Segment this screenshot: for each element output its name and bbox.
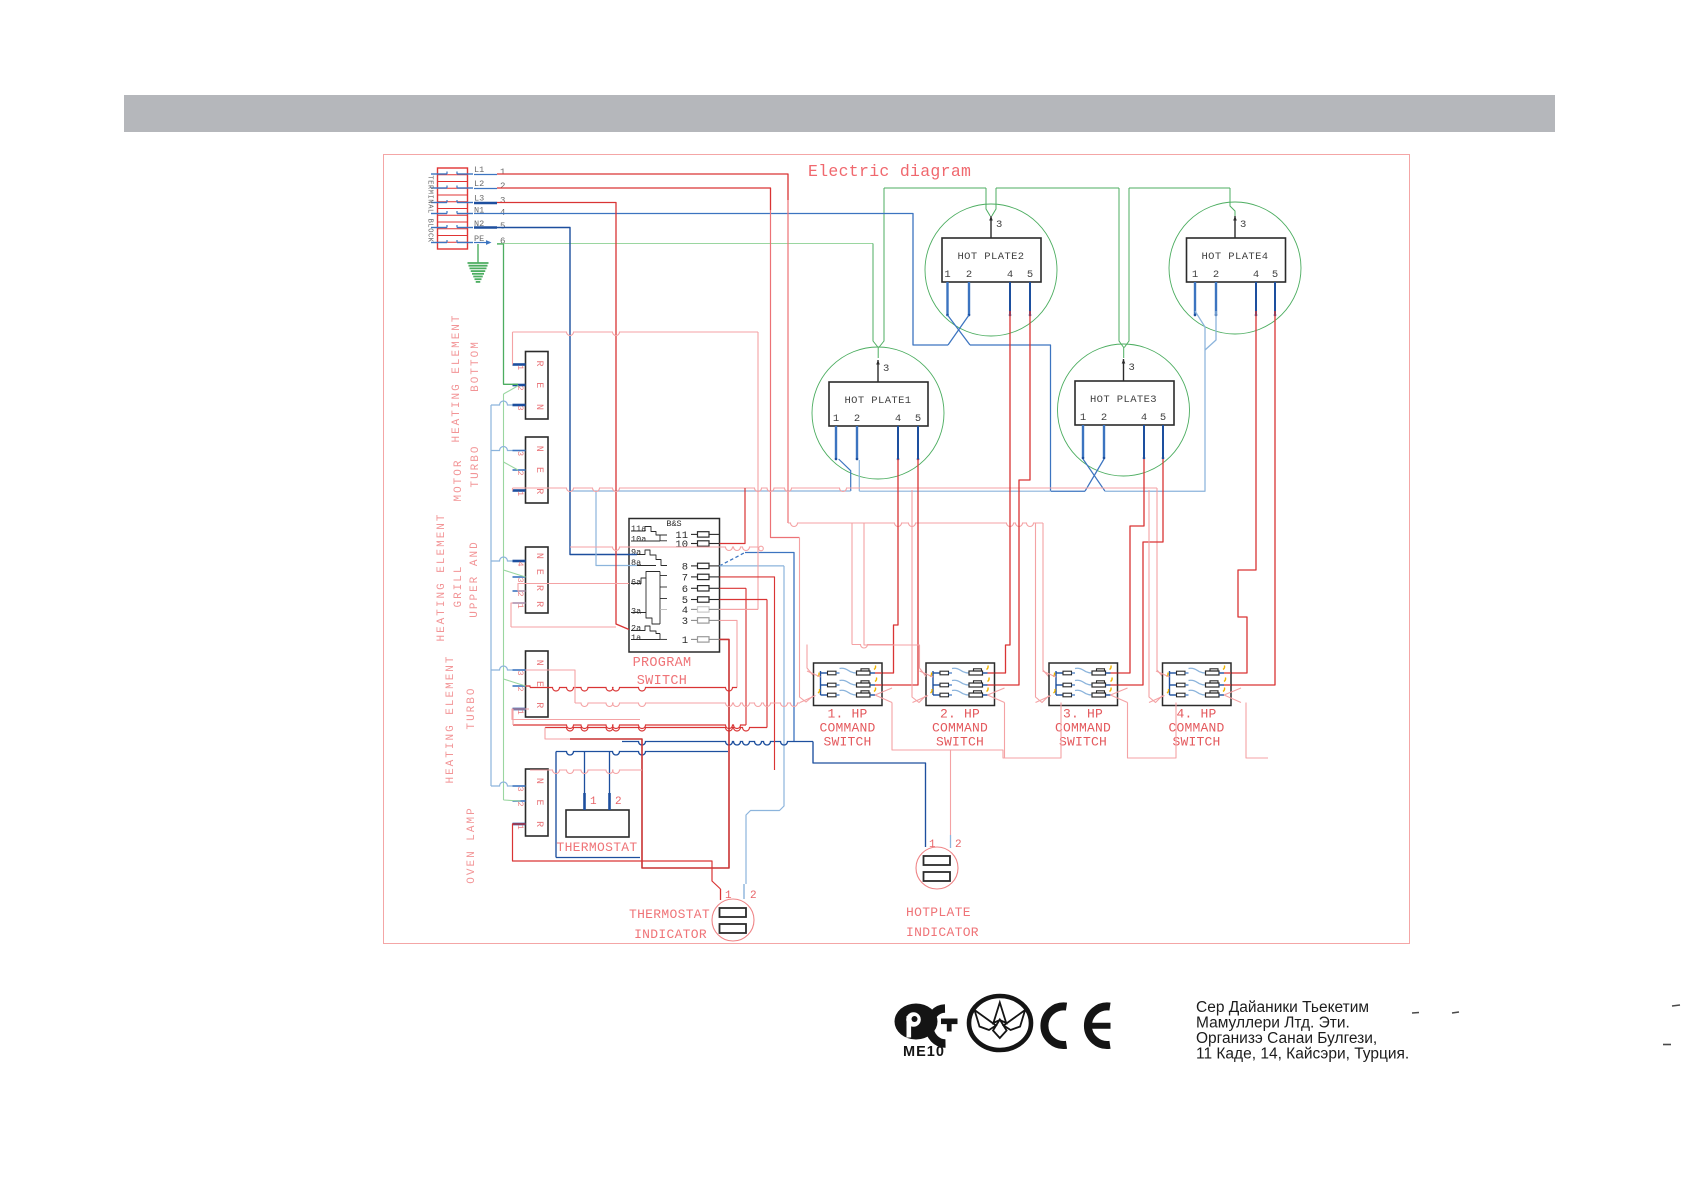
svg-text:2: 2	[1101, 412, 1107, 424]
wire N1 blue	[497, 214, 948, 346]
svg-text:TERMINAL BLOCK: TERMINAL BLOCK	[426, 175, 434, 242]
command switch 2 HP box	[926, 663, 995, 706]
svg-text:5: 5	[915, 413, 921, 425]
terminal labels L1 L2 L3 N1 N2 PE	[474, 165, 505, 247]
svg-text:2: 2	[515, 591, 525, 596]
hotplate indicator label	[906, 905, 979, 940]
svg-text:2: 2	[966, 269, 972, 281]
svg-text:L1: L1	[474, 165, 484, 175]
wire relay K3 chain open end	[570, 546, 763, 551]
svg-text:3. HP: 3. HP	[1063, 707, 1103, 722]
trident conformity logo	[969, 996, 1031, 1050]
wire hot plate4 pin4 to command4	[1231, 311, 1257, 673]
svg-text:TURBO: TURBO	[470, 444, 482, 487]
wire dark blue to hotplate indicator pin1	[622, 742, 926, 848]
svg-text:4: 4	[1141, 412, 1147, 424]
svg-text:E: E	[533, 467, 544, 473]
wire hot plate2 pin4 to command2	[994, 311, 1010, 673]
svg-text:2: 2	[1213, 269, 1219, 281]
wire relay K4 pin3 pink	[526, 670, 801, 707]
svg-text:L2: L2	[474, 179, 484, 189]
wire hot plate2 pin5 to command2	[994, 311, 1030, 685]
command switch 4 HP box	[1163, 663, 1232, 706]
svg-text:Electric diagram: Electric diagram	[808, 162, 971, 181]
svg-text:1: 1	[515, 603, 525, 608]
svg-text:OVEN LAMP: OVEN LAMP	[466, 806, 478, 883]
svg-text:SWITCH: SWITCH	[1059, 735, 1107, 750]
svg-text:1: 1	[515, 824, 525, 829]
stray marks	[1412, 1005, 1680, 1045]
wire relay K4 pin2 red	[526, 686, 738, 691]
svg-text:1. HP: 1. HP	[827, 707, 867, 722]
svg-text:3: 3	[515, 670, 525, 675]
svg-text:PROGRAM: PROGRAM	[633, 656, 692, 671]
svg-text:2a: 2a	[631, 624, 641, 634]
hotplate indicator lamp	[916, 835, 962, 889]
svg-text:3: 3	[515, 577, 525, 582]
wire dark blue thermostat feed	[556, 752, 728, 858]
wire X crossing under hot plate 3	[1051, 459, 1105, 491]
svg-text:SWITCH: SWITCH	[1172, 735, 1220, 750]
program switch cam contacts	[631, 527, 667, 640]
svg-text:1: 1	[682, 635, 688, 647]
svg-text:3: 3	[515, 786, 525, 791]
command switch 4 row outputs red	[1149, 671, 1241, 703]
wire program pin6 red	[513, 588, 746, 728]
wire relay K1 pin1 pink riser	[513, 332, 759, 609]
svg-text:4: 4	[1253, 269, 1259, 281]
svg-text:1: 1	[515, 709, 525, 714]
wire program pin10 red	[720, 488, 746, 544]
terminal block TB1	[431, 168, 473, 249]
svg-text:R: R	[533, 601, 544, 607]
svg-text:R: R	[533, 821, 544, 827]
svg-text:3: 3	[883, 363, 889, 375]
svg-text:6a: 6a	[631, 578, 641, 588]
svg-text:HEATING ELEMENT: HEATING ELEMENT	[436, 512, 448, 641]
svg-text:E: E	[533, 799, 544, 805]
PCT certification logo	[895, 998, 960, 1050]
svg-text:1: 1	[590, 796, 597, 808]
svg-text:8a: 8a	[631, 558, 641, 568]
svg-text:R: R	[533, 360, 544, 366]
svg-text:Сер Дайаники Тьекетим: Сер Дайаники Тьекетим	[1196, 999, 1369, 1016]
wire L1 red	[497, 174, 788, 200]
wire PE green bus to relays	[497, 244, 526, 801]
hot plate HOT PLATE1	[812, 347, 944, 479]
svg-text:1: 1	[515, 365, 525, 370]
svg-text:1: 1	[1192, 269, 1198, 281]
command switch 1 HP box	[814, 663, 883, 706]
svg-text:Мамуллери Лтд. Эти.: Мамуллери Лтд. Эти.	[1196, 1015, 1350, 1032]
wire hot plate1 pin4 to command1	[882, 459, 898, 673]
svg-text:4: 4	[895, 413, 901, 425]
wire relay K3 pin1 pink	[511, 603, 526, 627]
program switch cam labels	[631, 524, 646, 643]
wire light blue relay bus	[491, 401, 513, 786]
wire hot plate4 pin5 to command4	[1231, 311, 1276, 685]
svg-text:3: 3	[1240, 219, 1246, 231]
ground symbol	[468, 244, 489, 282]
svg-text:2: 2	[515, 801, 525, 806]
svg-text:3: 3	[515, 451, 525, 456]
svg-text:HEATING ELEMENT: HEATING ELEMENT	[451, 313, 463, 442]
relay K2 turbo motor relay	[513, 437, 549, 503]
wire program pin5 red	[545, 600, 767, 732]
wire PE green to hot plates chain	[873, 188, 1235, 358]
svg-text:2: 2	[615, 796, 622, 808]
svg-text:3: 3	[515, 405, 525, 410]
svg-text:1: 1	[515, 491, 525, 496]
svg-text:2: 2	[515, 470, 525, 475]
svg-text:7: 7	[682, 572, 688, 584]
hot plate HOT PLATE2	[925, 204, 1057, 336]
svg-text:R: R	[533, 585, 544, 591]
svg-text:N: N	[533, 778, 544, 784]
svg-text:INDICATOR: INDICATOR	[634, 927, 707, 942]
svg-text:HOTPLATE: HOTPLATE	[906, 905, 971, 920]
wire program pin3 pink	[720, 620, 738, 687]
svg-text:5: 5	[1160, 412, 1166, 424]
svg-text:HOT PLATE4: HOT PLATE4	[1201, 251, 1268, 263]
thermostat indicator label	[629, 907, 710, 942]
svg-text:INDICATOR: INDICATOR	[906, 925, 979, 940]
svg-text:6: 6	[500, 237, 505, 247]
svg-text:N: N	[533, 553, 544, 559]
wire pink to command 1 top	[852, 645, 893, 649]
wire hot plate1 pin5 to command1	[882, 459, 918, 685]
svg-text:6: 6	[682, 584, 688, 596]
thermostat indicator lamp	[712, 889, 757, 941]
header gray bar	[124, 95, 1555, 132]
svg-text:10a: 10a	[631, 535, 646, 545]
wire X crossing under hot plate 2	[948, 315, 1051, 491]
svg-text:2. HP: 2. HP	[940, 707, 980, 722]
svg-text:11a: 11a	[631, 524, 646, 534]
wire light blue hot plate 4 to crossing	[1105, 311, 1216, 491]
wire program pin7 red	[720, 577, 775, 770]
svg-text:SWITCH: SWITCH	[637, 674, 687, 689]
svg-text:COMMAND: COMMAND	[819, 721, 875, 736]
svg-text:5: 5	[1272, 269, 1278, 281]
svg-text:3a: 3a	[631, 607, 641, 617]
svg-text:HOT PLATE2: HOT PLATE2	[957, 251, 1024, 263]
wire hot plate 1 pin2 to crossing chain	[859, 460, 1051, 491]
svg-text:B&S: B&S	[666, 519, 681, 529]
svg-text:1: 1	[929, 839, 936, 851]
command switch 2 HP label	[932, 707, 988, 750]
svg-text:N: N	[533, 404, 544, 410]
hot plate HOT PLATE4	[1169, 202, 1301, 334]
svg-text:4: 4	[515, 561, 525, 566]
wire pink thermostat band	[530, 728, 642, 774]
svg-text:3: 3	[1129, 362, 1135, 374]
svg-text:THERMOSTAT: THERMOSTAT	[556, 840, 637, 855]
svg-text:R: R	[533, 702, 544, 708]
svg-text:E: E	[533, 569, 544, 575]
svg-text:E: E	[533, 681, 544, 687]
svg-text:THERMOSTAT: THERMOSTAT	[629, 907, 710, 922]
command switch 1 row outputs red	[800, 671, 892, 703]
svg-text:1a: 1a	[631, 633, 641, 643]
svg-text:E: E	[533, 382, 544, 388]
wire program pin1 thick red	[570, 639, 729, 868]
terminal stubs	[474, 175, 497, 245]
svg-text:1: 1	[1080, 412, 1086, 424]
relay K5 oven lamp relay	[513, 769, 549, 836]
wire program pin4 pink	[720, 608, 759, 610]
wire light blue to program 8a	[596, 491, 637, 566]
svg-text:Организэ Санаи Булгези,: Организэ Санаи Булгези,	[1196, 1030, 1377, 1047]
wire relay K3 pin2 chain	[518, 584, 629, 592]
svg-text:N: N	[533, 660, 544, 666]
hot plate pin stubs	[835, 282, 1277, 460]
wire pink mid band y523	[788, 523, 1049, 677]
svg-text:3: 3	[682, 616, 688, 628]
relay K4 turbo heating relay	[513, 651, 549, 717]
wire N2 blue to program 9a	[497, 228, 637, 555]
command switch 2 row outputs red	[913, 671, 1005, 703]
wire relay K5 pin1 red	[513, 824, 721, 889]
wire pink riser to command switch 1	[800, 538, 815, 703]
svg-text:5: 5	[1027, 269, 1033, 281]
svg-text:3: 3	[500, 196, 505, 206]
svg-text:1: 1	[944, 269, 950, 281]
svg-text:1: 1	[725, 890, 732, 902]
svg-text:R: R	[533, 488, 544, 494]
program switch output pins	[675, 530, 719, 647]
relay K3 upper grill relay	[513, 547, 549, 613]
svg-text:HEATING ELEMENT: HEATING ELEMENT	[445, 654, 457, 783]
wire pink riser x852	[851, 523, 853, 645]
svg-text:2: 2	[854, 413, 860, 425]
svg-text:TURBO: TURBO	[466, 686, 478, 729]
command switch 3 row outputs red	[1036, 671, 1128, 703]
svg-text:9a: 9a	[631, 548, 641, 558]
svg-text:2: 2	[750, 890, 757, 902]
svg-text:SWITCH: SWITCH	[823, 735, 871, 750]
svg-text:1: 1	[833, 413, 839, 425]
thermostat TH1	[566, 793, 629, 837]
command switch 4 HP label	[1168, 707, 1224, 750]
wire hot plate3 pin4 to command3	[1117, 459, 1144, 673]
wire relay K4 pin1 pink link	[512, 709, 640, 720]
CE mark	[1044, 1006, 1110, 1045]
wire L2 red	[497, 188, 771, 210]
wire relay K2 pin1 pink	[513, 488, 1164, 677]
wire pink interlinks below command switches	[892, 703, 1268, 836]
wire L3 red to program 2a	[497, 203, 629, 630]
diagram frame	[384, 155, 1410, 944]
svg-text:HOT PLATE1: HOT PLATE1	[844, 395, 911, 407]
wire relay K4 pin1 red link	[513, 709, 529, 725]
svg-text:5: 5	[500, 222, 505, 232]
svg-text:COMMAND: COMMAND	[1168, 721, 1224, 736]
wire pink risers to command boxes 2 3 4	[864, 490, 1163, 703]
svg-text:N: N	[533, 446, 544, 452]
wire PE light green horizontal	[497, 243, 873, 245]
svg-text:GRILL: GRILL	[453, 564, 465, 607]
program switch S1 box	[629, 519, 720, 653]
wire hot plate3 pin5 to command3	[1117, 459, 1163, 685]
svg-text:4: 4	[1007, 269, 1013, 281]
svg-text:11 Каде, 14, Кайсэри, Турция.: 11 Каде, 14, Кайсэри, Турция.	[1196, 1046, 1409, 1063]
command switch 1 HP label	[819, 707, 875, 750]
wire program pin8 outputs blue	[720, 553, 795, 900]
svg-text:2: 2	[515, 686, 525, 691]
svg-text:COMMAND: COMMAND	[1055, 721, 1111, 736]
wire hot plate 1 pin1 to program chain	[570, 459, 851, 491]
svg-text:1: 1	[500, 168, 505, 178]
svg-text:BOTTOM: BOTTOM	[470, 340, 482, 392]
svg-text:МЕ10: МЕ10	[903, 1044, 945, 1060]
svg-text:SWITCH: SWITCH	[936, 735, 984, 750]
command switch 3 HP box	[1049, 663, 1118, 706]
svg-text:2: 2	[500, 182, 505, 192]
svg-text:10: 10	[675, 539, 688, 551]
svg-text:MOTOR: MOTOR	[453, 458, 465, 501]
hot plate HOT PLATE3	[1058, 344, 1190, 476]
relay K1 bottom heating relay	[513, 352, 549, 420]
svg-text:2: 2	[955, 839, 962, 851]
svg-text:UPPER AND: UPPER AND	[469, 540, 481, 617]
svg-text:4. HP: 4. HP	[1176, 707, 1216, 722]
manufacturer address text	[1196, 999, 1409, 1063]
command switch 3 HP label	[1055, 707, 1111, 750]
svg-text:HOT PLATE3: HOT PLATE3	[1090, 394, 1157, 406]
svg-text:COMMAND: COMMAND	[932, 721, 988, 736]
svg-text:3: 3	[996, 219, 1002, 231]
